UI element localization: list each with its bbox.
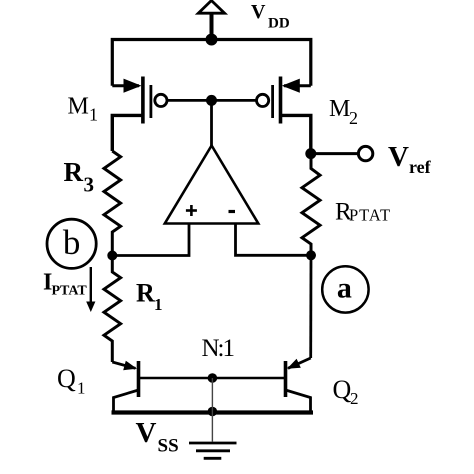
- junction dot Vref node: [305, 148, 316, 159]
- svg-text:V: V: [136, 417, 157, 449]
- power VDD symbol: [198, 1, 224, 40]
- svg-text:3: 3: [84, 173, 95, 197]
- svg-text:PTAT: PTAT: [349, 206, 391, 225]
- svg-text:M: M: [329, 96, 350, 122]
- transistor M1 source arrow: [112, 79, 141, 93]
- transistor M2 drain wire: [281, 115, 311, 154]
- svg-text:N:1: N:1: [202, 335, 234, 362]
- svg-text:R: R: [136, 278, 155, 307]
- svg-text:PTAT: PTAT: [52, 284, 88, 299]
- node b circle: [47, 219, 96, 268]
- op-amp U1 minus input marker: [229, 210, 236, 213]
- wire base rail Q1-Q2: [139, 377, 286, 380]
- svg-text:R: R: [64, 157, 84, 187]
- svg-text:Q: Q: [333, 375, 352, 404]
- wire top VDD rail: [112, 40, 310, 86]
- transistor M1 drain wire: [112, 115, 143, 151]
- transistor M2 gate bar: [271, 85, 274, 118]
- svg-text:b: b: [63, 223, 81, 262]
- transistor Q1 emitter with arrow: [112, 361, 137, 371]
- svg-text:DD: DD: [268, 15, 290, 31]
- transistor Q1 base bar: [137, 361, 141, 397]
- resistor R1: [104, 256, 121, 363]
- wire node a to Q2 emitter: [309, 255, 312, 358]
- svg-text:ref: ref: [409, 157, 432, 177]
- wire gate net to op-amp output: [210, 100, 213, 146]
- transistor M1 gate bar: [149, 85, 152, 118]
- transistor M1 gate bubble: [155, 94, 167, 106]
- svg-text:1: 1: [154, 295, 163, 314]
- wire op-amp minus input to node a: [236, 224, 312, 256]
- svg-text:1: 1: [89, 105, 98, 125]
- svg-text:1: 1: [77, 378, 86, 397]
- op-amp U1 body: [165, 146, 258, 224]
- resistor R3: [104, 151, 121, 256]
- junction dot VDD rail: [206, 34, 218, 46]
- wire op-amp plus input to node b: [112, 224, 189, 256]
- current arrow IPTAT: [86, 267, 95, 312]
- svg-text:V: V: [251, 1, 266, 23]
- transistor M2 gate bubble: [257, 94, 269, 106]
- wire Vref node to terminal: [311, 152, 359, 155]
- svg-text:M: M: [68, 94, 89, 120]
- transistor M2 source arrow: [282, 79, 311, 93]
- svg-text:2: 2: [349, 108, 358, 128]
- transistor Q2 base bar: [284, 361, 288, 397]
- wire gate net: [167, 99, 257, 102]
- junction dot node a: [306, 250, 316, 260]
- junction dot base rail: [208, 373, 218, 383]
- junction dot VSS rail: [208, 407, 218, 417]
- transistor Q2 collector: [286, 390, 311, 413]
- wire base rail to ground: [211, 378, 213, 442]
- resistor RPTAT: [302, 154, 320, 255]
- svg-text:a: a: [337, 272, 352, 305]
- transistor Q1 collector: [114, 390, 139, 413]
- terminal Vref: [358, 146, 372, 160]
- junction dot gate net: [206, 95, 217, 106]
- transistor M1 channel bar: [141, 77, 145, 124]
- op-amp U1 plus input marker: [186, 205, 197, 216]
- wire bottom VSS rail: [112, 410, 314, 414]
- svg-text:Q: Q: [57, 364, 76, 393]
- svg-text:V: V: [388, 141, 409, 173]
- svg-text:SS: SS: [158, 436, 179, 457]
- transistor M2 channel bar: [279, 77, 283, 124]
- transistor Q2 emitter with arrow: [287, 358, 311, 369]
- svg-text:2: 2: [350, 389, 359, 408]
- junction dot node b: [107, 251, 117, 261]
- node a circle: [322, 266, 368, 312]
- ground: [189, 443, 237, 458]
